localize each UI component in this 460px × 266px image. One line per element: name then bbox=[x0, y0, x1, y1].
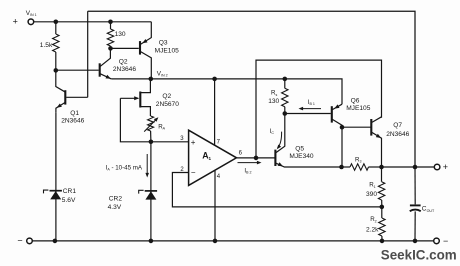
svg-text:MJE105: MJE105 bbox=[346, 105, 371, 112]
svg-text:CR2: CR2 bbox=[109, 196, 123, 203]
diode CR2 zener bbox=[108, 142, 158, 241]
svg-text:2N3646: 2N3646 bbox=[61, 118, 84, 125]
svg-text:+: + bbox=[443, 162, 448, 172]
wire op-amp pin4 to rail bbox=[215, 170, 221, 241]
wire op-amp pin7 supply bbox=[215, 79, 221, 145]
svg-text:−: − bbox=[17, 236, 22, 246]
node - output terminal bbox=[434, 236, 449, 246]
diode CR1 zener bbox=[44, 113, 77, 241]
svg-text:Q6: Q6 bbox=[351, 98, 360, 105]
resistor R1 390 bbox=[366, 167, 385, 207]
node junction pin4/bottom bbox=[213, 239, 218, 244]
svg-text:CR1: CR1 bbox=[63, 188, 77, 195]
node junction Q5E/Q6C/R3 bbox=[339, 165, 344, 170]
svg-text:Q2: Q2 bbox=[162, 93, 171, 100]
node junction Rs/Q6base bbox=[283, 111, 288, 116]
node junction Vin2/Q3/JFET drain bbox=[149, 77, 154, 82]
svg-text:2N5670: 2N5670 bbox=[156, 101, 179, 108]
current IB1 arrow bbox=[299, 99, 322, 111]
node junction Vin2/Rs bbox=[283, 77, 288, 82]
wire Vin2 node rail bbox=[111, 79, 342, 104]
node junction COUT/bottom bbox=[413, 239, 418, 244]
svg-text:−: − bbox=[443, 236, 448, 246]
svg-text:MJE340: MJE340 bbox=[289, 153, 314, 160]
resistor Rs 130 bbox=[268, 79, 288, 114]
node + output terminal bbox=[434, 162, 448, 172]
svg-text:2N3646: 2N3646 bbox=[386, 131, 409, 138]
svg-text:130: 130 bbox=[115, 31, 126, 38]
svg-text:SeekIC.com: SeekIC.com bbox=[381, 248, 457, 263]
svg-text:+: + bbox=[13, 16, 18, 26]
wire Q7 base wire bbox=[342, 126, 371, 128]
node junction Q6C/Q7base bbox=[340, 125, 345, 130]
wire Q6 collector to R3 bbox=[341, 127, 343, 167]
watermark SeekIC.com bbox=[381, 248, 457, 263]
svg-text:Q2: Q2 bbox=[119, 58, 128, 65]
svg-text:5.6V: 5.6V bbox=[62, 197, 76, 204]
wire top feedback rail bbox=[88, 11, 415, 167]
transistor Q7 2N3646 bbox=[371, 117, 409, 167]
node junction Vin2/pin7 bbox=[212, 77, 217, 82]
transistor Q3 MJE105 bbox=[140, 22, 179, 79]
transistor Q2 2N5670 JFET bbox=[120, 79, 179, 116]
resistor R3 bbox=[342, 156, 382, 170]
wire bottom negative rail bbox=[32, 240, 433, 242]
svg-text:MJE105: MJE105 bbox=[155, 47, 180, 54]
svg-text:+: + bbox=[191, 138, 196, 147]
node junction bottom/CR1 bbox=[53, 239, 58, 244]
node junction Vin1/1.5k bbox=[54, 20, 59, 25]
resistor 130 top bbox=[107, 22, 126, 49]
transistor Q5 MJE340 bbox=[275, 114, 341, 168]
svg-text:Q7: Q7 bbox=[393, 122, 402, 129]
node - input terminal bbox=[17, 236, 32, 246]
op-amp A1 bbox=[180, 130, 242, 185]
transistor Q1 2N3646 bbox=[56, 70, 85, 124]
svg-text:Q5: Q5 bbox=[295, 146, 304, 153]
wire op-amp output bbox=[237, 157, 275, 159]
node junction R3/Q7E/R1 bbox=[379, 165, 384, 170]
node junction +input bbox=[149, 140, 154, 145]
current IB2 arrow bbox=[238, 161, 262, 175]
svg-text:−: − bbox=[191, 168, 196, 177]
resistor 1.5k bbox=[40, 22, 59, 71]
rheostat RA bbox=[144, 116, 165, 142]
wire Vin1 input rail bbox=[34, 21, 152, 23]
capacitor COUT bbox=[410, 167, 435, 241]
svg-text:2.2k: 2.2k bbox=[366, 227, 379, 234]
svg-text:Q1: Q1 bbox=[70, 110, 79, 117]
wire output wire bbox=[382, 166, 435, 168]
svg-text:IA - 10-45 mA: IA - 10-45 mA bbox=[106, 164, 143, 171]
svg-text:1.5k: 1.5k bbox=[40, 42, 53, 49]
current IC arrow bbox=[270, 128, 282, 149]
transistor Q6 MJE105 bbox=[332, 98, 371, 128]
wire op-amp +input wire bbox=[151, 141, 189, 143]
wire Q1 base sense line bbox=[66, 11, 88, 97]
node junction output/right rail bbox=[413, 165, 418, 170]
wire Q2 base wire bbox=[56, 69, 99, 71]
transistor Q2 2N3646 bbox=[100, 48, 137, 79]
wire Q6 base wire bbox=[285, 113, 331, 115]
node junction R1/R2 feedback bbox=[380, 205, 385, 210]
svg-text:130: 130 bbox=[268, 98, 279, 105]
svg-text:2N3646: 2N3646 bbox=[113, 66, 136, 73]
node Vin2 label bbox=[157, 71, 168, 78]
wire Q3 base wire bbox=[111, 47, 139, 49]
node junction R2/bottom bbox=[380, 239, 385, 244]
resistor R2 2.2k bbox=[366, 207, 385, 241]
wire JFET gate to +input node bbox=[120, 98, 150, 142]
svg-text:390: 390 bbox=[366, 191, 377, 198]
node junction 130/Q2C/Q3base bbox=[108, 46, 113, 51]
node junction 1.5k/Q1/Q2base bbox=[54, 68, 59, 73]
wire pin2 feedback loop bbox=[172, 173, 381, 207]
node junction Vin1/130 bbox=[108, 20, 113, 25]
wire boost feedforward bbox=[256, 60, 382, 158]
current IA arrow bbox=[106, 154, 149, 178]
node junction bottom/CR2 bbox=[149, 239, 154, 244]
node + input terminal Vin1 bbox=[13, 10, 37, 27]
node junction output/boost bbox=[254, 156, 259, 161]
svg-text:4.3V: 4.3V bbox=[108, 204, 122, 211]
svg-text:Q3: Q3 bbox=[159, 39, 168, 46]
